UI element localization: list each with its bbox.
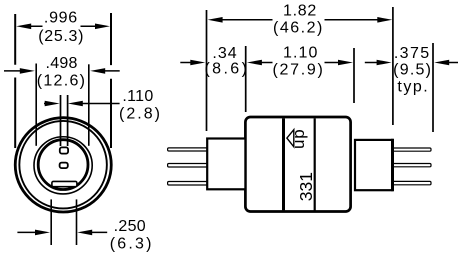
svg-text:1.82: 1.82 (283, 2, 317, 19)
slot 1 (60, 147, 68, 153)
right end block (355, 140, 393, 190)
dimension line .498 (4, 70, 120, 72)
dimension line 1.10 (261, 62, 339, 64)
dimension line .250 (17, 231, 107, 233)
svg-text:.375: .375 (394, 45, 431, 62)
dimension line .996 (30, 25, 96, 27)
body divider left (282, 118, 285, 210)
dimension line 1.82 (222, 19, 379, 21)
svg-text:(6.3): (6.3) (110, 236, 154, 253)
svg-text:(46.2): (46.2) (273, 19, 324, 36)
extension line .996 left (14, 14, 16, 148)
svg-text:up: up (289, 129, 308, 150)
extension line .498 left (35, 64, 37, 146)
extension line .34/1.10 shared (245, 46, 247, 112)
inner thick circle (38, 140, 88, 190)
svg-text:.498: .498 (46, 55, 78, 72)
svg-text:.110: .110 (122, 88, 153, 105)
extension line .498 right (88, 64, 90, 146)
second circle (19, 121, 107, 209)
svg-text:1.10: 1.10 (283, 45, 319, 62)
svg-text:(12.6): (12.6) (37, 72, 87, 89)
extension line .250 right (76, 199, 78, 245)
right end block bold edge (391, 139, 394, 191)
inner thin circle (34, 137, 92, 194)
body divider right (314, 118, 316, 210)
svg-text:(8.6): (8.6) (204, 61, 249, 78)
svg-text:(27.9): (27.9) (273, 62, 325, 79)
svg-text:.250: .250 (114, 218, 146, 235)
up arrow symbol (287, 130, 294, 147)
left end block (207, 139, 245, 190)
extension line .110 right (67, 95, 69, 146)
svg-text:331: 331 (296, 172, 316, 201)
extension line 1.82/.375 shared (392, 7, 394, 125)
dimension line .375 (365, 62, 458, 64)
keyway bar (52, 181, 77, 186)
svg-text:(25.3): (25.3) (38, 28, 84, 45)
left lead 2 (168, 164, 208, 168)
svg-text:typ.: typ. (397, 79, 429, 96)
extension line .110 left (60, 95, 62, 146)
extension line 1.82/.34 left (206, 10, 208, 131)
dimension line .34 (180, 62, 191, 64)
dimension line .110 (44, 103, 120, 105)
extension line 1.10 right (353, 48, 355, 103)
extension line .375 right (432, 43, 434, 132)
right lead 2 (392, 164, 432, 167)
extension line .996 right (110, 13, 112, 148)
right lead 3 (392, 181, 432, 184)
side view body (245, 117, 350, 212)
svg-text:(9.5): (9.5) (393, 62, 432, 79)
svg-text:.996: .996 (44, 10, 78, 27)
svg-text:.34: .34 (212, 45, 237, 62)
left lead 3 (168, 182, 208, 186)
left lead 1 (168, 148, 208, 151)
outer circle (15, 118, 111, 212)
right lead 1 (392, 148, 432, 151)
svg-text:(2.8): (2.8) (119, 106, 162, 123)
extension line .250 left (50, 199, 52, 245)
slot 2 (60, 163, 68, 169)
